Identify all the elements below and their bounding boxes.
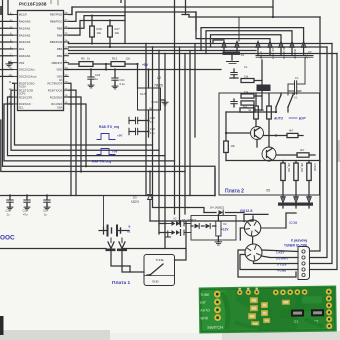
svg-text:VDD: VDD — [56, 68, 62, 72]
svg-text:RB5: RB5 — [57, 26, 63, 30]
wire plata1 right — [175, 249, 187, 261]
svg-text:0.1u: 0.1u — [120, 82, 126, 86]
bus wire y171.5 — [1, 120, 185, 172]
resistor RC net 10k — [241, 79, 254, 83]
svg-text:X5: X5 — [266, 189, 270, 193]
wire x262 vertical — [261, 60, 263, 110]
resistor Rb2 — [267, 106, 272, 119]
U1 pin labels — [13, 14, 18, 16]
svg-text:AUTO: AUTO — [273, 117, 283, 121]
svg-text:C26: C26 — [6, 209, 11, 213]
X5 resistors — [281, 163, 285, 181]
resistor 4k7 b — [297, 153, 309, 157]
wire staircase RC0 — [13, 83, 153, 145]
wire vertical x159 — [158, 51, 160, 235]
bus wire y43.5 — [69, 43, 147, 45]
svg-text:RC6/TX/CK: RC6/TX/CK — [48, 88, 63, 92]
capacitor C23 — [105, 64, 107, 70]
svg-text:0.1: 0.1 — [150, 120, 154, 124]
wire y248.5 left — [0, 248, 106, 250]
capacitor C20 — [135, 117, 137, 123]
svg-text:КД201: КД201 — [131, 200, 140, 204]
X1 lower arrows — [110, 238, 112, 243]
svg-text:RA0/AN0: RA0/AN0 — [19, 20, 31, 24]
svg-text:+5V: +5V — [112, 150, 117, 154]
resistor 10k left — [224, 141, 229, 153]
svg-text:SCL: SCL — [19, 106, 24, 109]
wire pin21 row — [69, 63, 80, 65]
svg-text:GND: GND — [151, 100, 159, 104]
wire left bus vertical — [2, 0, 4, 166]
wire pin25 — [69, 21, 111, 36]
board outline Plata 2 — [219, 93, 320, 195]
svg-text:1u: 1u — [95, 77, 99, 81]
wire staircase RC1 — [11, 90, 159, 150]
capacitor RC net c2 — [233, 99, 235, 102]
svg-text:10k: 10k — [115, 31, 120, 35]
svg-text:RC5/SDO: RC5/SDO — [50, 95, 63, 99]
X5 arrows — [282, 181, 284, 200]
svg-text:MCLR: MCLR — [19, 13, 27, 17]
capacitor X7 0.1a — [304, 57, 306, 84]
wire y221 — [150, 220, 253, 222]
svg-text:X1: X1 — [127, 230, 131, 234]
wire pin16 down — [69, 97, 82, 171]
svg-text:SWITCH: SWITCH — [207, 325, 223, 330]
svg-text:10k: 10k — [231, 144, 236, 148]
vertical x273 from top — [272, 0, 274, 17]
junction R17 top — [109, 21, 111, 27]
svg-text:TUNE: TUNE — [156, 258, 164, 262]
svg-text:SDA: SDA — [57, 106, 62, 109]
wire vertical x152.5 — [153, 47, 189, 208]
ground VSS pin8 — [9, 62, 13, 64]
capacitor C25 — [26, 196, 28, 201]
svg-text:D5 1N5822: D5 1N5822 — [182, 218, 197, 222]
svg-text:ЛВ_ОЛ: ЛВ_ОЛ — [300, 163, 304, 172]
svg-text:RA6 /TX_req: RA6 /TX_req — [99, 125, 119, 129]
svg-text:1u: 1u — [44, 213, 47, 217]
svg-text:X4: X4 — [223, 222, 227, 226]
connector X1 — [103, 196, 105, 231]
resistor Rb1 — [254, 106, 259, 119]
svg-text:RB7/PGD: RB7/PGD — [50, 13, 62, 17]
scan border artifacts — [120, 0, 122, 3]
svg-text:R13: R13 — [112, 57, 118, 61]
svg-text:0.1: 0.1 — [295, 76, 299, 80]
capacitor RC net c1 — [233, 69, 235, 73]
svg-text:RA5/AN4: RA5/AN4 — [19, 54, 31, 58]
svg-text:RA1/AN1: RA1/AN1 — [19, 26, 31, 30]
svg-text:CK: CK — [59, 79, 63, 82]
wires R18 R17 bottoms — [91, 37, 93, 44]
svg-text:ЛВ_ОЛ: ЛВ_ОЛ — [287, 163, 291, 172]
wire vertical x179.5 — [179, 47, 181, 224]
bus wire y47 — [69, 46, 153, 48]
svg-text:X6: X6 — [241, 53, 245, 57]
resistor RC net r3 — [241, 101, 254, 105]
wire top R18 R17 to +5V rail — [92, 15, 125, 17]
wire staircase t1 — [71, 7, 73, 15]
wire pin18 down — [69, 83, 72, 195]
svg-text:RA2/AN2: RA2/AN2 — [19, 33, 31, 37]
relay K1 body — [257, 85, 271, 92]
wire U2 in down — [148, 110, 150, 137]
wires nested loop — [238, 250, 296, 277]
wire right edge v2 — [310, 47, 328, 258]
transistor Q1 — [251, 127, 264, 140]
label RA7 TX annotation — [97, 149, 115, 155]
svg-text:D4 1N5822: D4 1N5822 — [210, 206, 225, 210]
svg-text:Плата 2: Плата 2 — [225, 189, 244, 195]
wire q emitters — [256, 140, 258, 148]
wires transistor area — [255, 93, 257, 106]
svg-text:10k: 10k — [244, 75, 249, 79]
svg-text:C25: C25 — [23, 209, 28, 213]
connector X7 — [257, 45, 259, 55]
svg-text:OSC2/CLKout: OSC2/CLKout — [19, 75, 37, 79]
svg-text:БУР: БУР — [299, 117, 306, 121]
wire right edge v1 — [310, 17, 321, 251]
svg-text:X2: X2 — [173, 217, 177, 221]
svg-text:OUT: OUT — [140, 92, 147, 96]
svg-text:CCP2: CCP2 — [19, 93, 26, 96]
svg-text:78L05: 78L05 — [154, 84, 163, 88]
svg-text:0.1: 0.1 — [244, 65, 248, 69]
bus wires continue right — [146, 43, 332, 45]
wire right edge v3 — [310, 44, 333, 264]
PCB photo SWITCH board — [199, 286, 337, 334]
svg-text:T1CKI: T1CKI — [19, 86, 26, 89]
bus wire y53.5 — [69, 53, 166, 55]
resistor R17 — [108, 26, 113, 37]
wire pin26 to R18 — [69, 16, 93, 29]
svg-text:+5V: +5V — [117, 134, 122, 138]
resistor RC net r2 — [241, 94, 254, 98]
svg-text:LB_OUT: LB_OUT — [271, 48, 275, 59]
svg-text:0.1: 0.1 — [294, 96, 298, 100]
svg-text:TUNE: TUNE — [200, 293, 210, 297]
diode D3 — [149, 172, 151, 194]
svg-text:PIC16F1938: PIC16F1938 — [19, 1, 47, 7]
staircase to X7 arrows — [201, 28, 304, 51]
svg-text:4k7: 4k7 — [289, 129, 294, 133]
svg-text:+5V: +5V — [142, 63, 149, 67]
svg-text:4k7: 4k7 — [300, 148, 305, 152]
wires RA0-RA5 to left edge — [0, 20, 13, 22]
svg-text:GND: GND — [152, 280, 160, 284]
svg-text:C27: C27 — [43, 209, 48, 213]
svg-text:47u: 47u — [23, 213, 28, 217]
svg-text:1u: 1u — [7, 213, 10, 217]
svg-text:C1: C1 — [294, 320, 298, 324]
svg-text:+12V: +12V — [221, 228, 229, 232]
capacitor X7 0.1b — [288, 90, 295, 92]
svg-text:RA7 TX_req: RA7 TX_req — [92, 160, 111, 164]
wire pin15 down — [69, 104, 87, 166]
module box — [191, 216, 236, 241]
wire vertical x174.5 full — [174, 0, 176, 214]
junction R18 top — [91, 16, 93, 26]
wire +5V rail — [66, 69, 221, 71]
board Plata 1 — [144, 255, 175, 286]
wires X2 left — [159, 223, 166, 225]
svg-text:З ЛОЛ: З ЛОЛ — [313, 163, 317, 171]
wire pin27 rail — [69, 12, 197, 31]
bus wire y166.2 — [3, 166, 216, 195]
svg-text:VSS: VSS — [19, 61, 25, 65]
svg-text:GX12-5: GX12-5 — [240, 209, 252, 213]
svg-text:B1 AUTO: B1 AUTO — [282, 47, 286, 60]
wire circle1 left — [240, 228, 244, 240]
resistor 4k7 a — [287, 133, 298, 137]
svg-text:R5: R5 — [81, 57, 85, 61]
svg-text:RC2/CCP1: RC2/CCP1 — [19, 95, 33, 99]
capacitor C21 — [114, 70, 116, 79]
connector GX12 circle 2 — [245, 244, 262, 261]
connector GX12 circle 1 — [244, 220, 260, 236]
wire vertical x146 — [145, 44, 147, 196]
IC U1 PIC16F1938 — [18, 11, 64, 111]
resistor R5 1k — [79, 62, 93, 67]
svg-text:ООС: ООС — [0, 235, 15, 242]
switch S1 — [276, 95, 281, 107]
svg-text:B2 БУР: B2 БУР — [293, 49, 297, 59]
wire R5-R13 — [93, 63, 111, 65]
wire vertical x185 — [184, 54, 186, 215]
wire MCLR pull-up — [8, 0, 13, 15]
capacitor C26 — [9, 196, 11, 201]
svg-text:10k: 10k — [97, 31, 102, 35]
connector X6 — [223, 45, 225, 54]
wires X1 down to Plata1 — [111, 251, 130, 266]
svg-text:RB6/PGC: RB6/PGC — [50, 20, 62, 24]
svg-text:50k: 50k — [243, 105, 248, 109]
resistor RC net 50k — [240, 108, 255, 112]
svg-text:OSC1/CLKin: OSC1/CLKin — [19, 68, 35, 72]
svg-text:RA4: RA4 — [19, 47, 25, 51]
wire top rail to X7 — [189, 16, 320, 18]
capacitor C22 — [135, 128, 137, 134]
ground U2 — [161, 99, 166, 101]
wire between connectors — [252, 236, 254, 244]
wire pin17 down — [69, 90, 77, 195]
svg-text:ICOM: ICOM — [289, 221, 298, 225]
svg-text:X7 TX: X7 TX — [259, 51, 263, 59]
wires OSC pins — [0, 69, 13, 71]
svg-text:К разъёму: К разъёму — [291, 239, 308, 243]
wires connector2 to housing — [262, 250, 298, 252]
bus wire y50.5 — [69, 50, 160, 52]
svg-text:RB2: RB2 — [57, 47, 63, 51]
wire U2 out — [148, 70, 150, 89]
svg-text:AUTO: AUTO — [200, 308, 210, 312]
wire staircase RC2 — [8, 97, 166, 156]
svg-text:47u: 47u — [150, 131, 155, 135]
svg-text:RB4: RB4 — [57, 33, 63, 37]
transistor Q2 — [262, 147, 276, 161]
svg-text:GND: GND — [201, 316, 209, 320]
fuse X4 — [216, 221, 221, 236]
svg-text:Плата 1: Плата 1 — [112, 280, 131, 286]
svg-text:IN: IN — [149, 107, 152, 111]
svg-text:RC7/RX/DT: RC7/RX/DT — [48, 82, 63, 86]
svg-text:RB0/INT: RB0/INT — [52, 61, 63, 65]
wire vertical x195 — [194, 44, 196, 138]
wire vertical x165 — [164, 54, 166, 249]
svg-text:RA3/AN3: RA3/AN3 — [19, 40, 31, 44]
svg-text:В: В — [129, 225, 131, 229]
svg-text:U2: U2 — [157, 76, 161, 80]
wire pin28 top rail — [69, 7, 274, 15]
wire vertical x190 — [189, 51, 191, 196]
capacitor C27 — [46, 196, 48, 201]
wire R13 right — [125, 63, 138, 65]
svg-text:12k: 12k — [125, 57, 130, 61]
svg-text:RB1: RB1 — [57, 54, 63, 58]
svg-text:RB3/PGM: RB3/PGM — [50, 40, 63, 44]
connector housing — [298, 247, 310, 280]
resistor R18 — [90, 26, 95, 37]
wire right edge v4 — [310, 54, 338, 270]
svg-text:INT: INT — [200, 301, 206, 305]
wire staircase RC3 — [4, 104, 175, 161]
resistor R13 12k — [111, 62, 125, 67]
wire y249 to x186 — [123, 221, 186, 249]
wire rail y195.5 — [0, 195, 215, 197]
